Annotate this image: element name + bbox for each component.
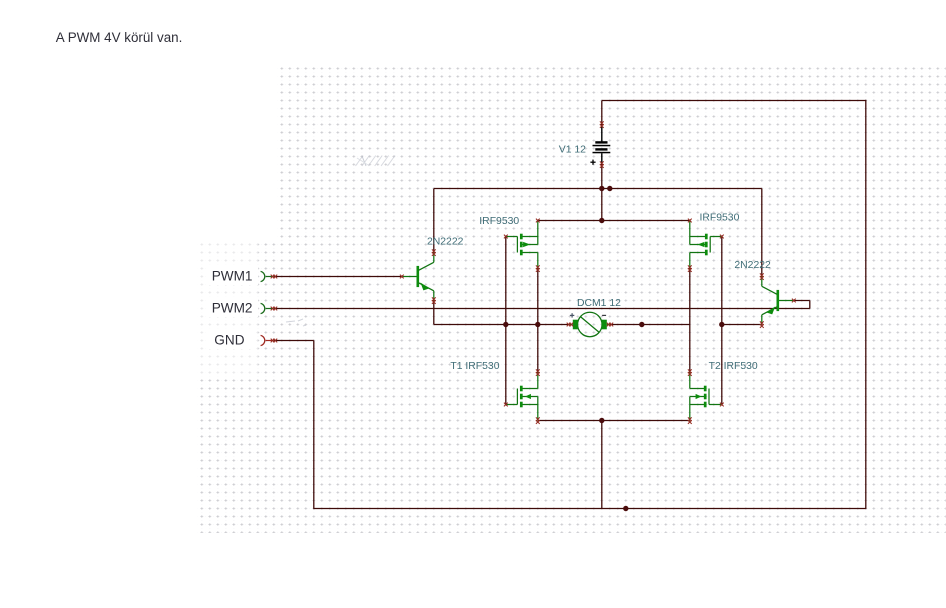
- svg-text:A PWM 4V körül van.: A PWM 4V körül van.: [56, 30, 183, 45]
- wire right emitter link: [722, 324, 762, 326]
- junction source rail at battery: [599, 218, 604, 223]
- connector PWM1: [261, 271, 265, 281]
- wire V+ collector rail: [434, 188, 762, 190]
- ghost small mark: [286, 319, 306, 326]
- svg-text:2N2222: 2N2222: [734, 260, 771, 271]
- junction motor row segment: [639, 322, 644, 327]
- battery V1 12: [590, 121, 610, 167]
- wire left emitter drop: [433, 301, 435, 325]
- svg-text:IRF9530: IRF9530: [479, 216, 519, 227]
- svg-text:DCM1 12: DCM1 12: [577, 298, 621, 309]
- svg-text:2N2222: 2N2222: [427, 236, 464, 247]
- wire right collector drop: [761, 189, 763, 277]
- svg-text:GND: GND: [214, 332, 244, 347]
- motor DCM1 12: [567, 312, 614, 336]
- svg-text:PWM1: PWM1: [212, 268, 253, 283]
- svg-text:T2 IRF530: T2 IRF530: [709, 361, 758, 372]
- wire GND horizontal: [274, 340, 314, 342]
- wire right edge vertical: [865, 100, 867, 509]
- wire motor row left: [434, 324, 570, 326]
- wire right half-bridge midpoint: [689, 269, 691, 373]
- wire PWM2 jog to base: [794, 300, 810, 302]
- wire left half-bridge midpoint: [537, 269, 539, 373]
- svg-text:PWM2: PWM2: [212, 300, 253, 315]
- MOSFET IRF9530 left: [504, 219, 540, 272]
- wire battery bottom to V+ rail: [601, 165, 603, 189]
- junction V+ rail stub: [607, 186, 612, 191]
- junction N source rail / ground drop: [599, 418, 604, 423]
- wire PWM1 net: [274, 276, 402, 278]
- ghost strikethrough text: [356, 156, 396, 167]
- wire P-MOSFET source rail: [538, 220, 690, 222]
- junction V+ rail at battery: [599, 186, 604, 191]
- wire motor row right: [610, 324, 690, 326]
- connector GND: [261, 335, 265, 345]
- svg-text:V1 12: V1 12: [559, 145, 586, 156]
- transistor 2N2222 left: [400, 249, 436, 304]
- wire left collector drop: [433, 189, 435, 253]
- svg-text:T1 IRF530: T1 IRF530: [450, 361, 499, 372]
- MOSFET T2 IRF530: [688, 369, 724, 424]
- wire source rail to ground: [601, 421, 603, 509]
- wire PWM2 jog up: [809, 301, 811, 309]
- junction right gates / emitter: [719, 322, 724, 327]
- wire battery top lead: [601, 101, 603, 125]
- wire battery to source rail: [601, 189, 603, 221]
- junction bottom ground run: [623, 506, 628, 511]
- wire bottom ground run: [314, 508, 867, 510]
- MOSFET IRF9530 right: [688, 219, 724, 272]
- wire GND vertical drop: [313, 341, 315, 510]
- junction motor row / left midpoint: [535, 322, 540, 327]
- connector PWM2: [261, 303, 265, 313]
- wire N-MOSFET source rail: [538, 420, 690, 422]
- wire left gates vertical: [505, 237, 507, 405]
- MOSFET T1 IRF530: [504, 369, 540, 424]
- transistor 2N2222 right: [760, 273, 796, 328]
- wire top rail from battery minus to right edge: [602, 100, 867, 102]
- wire PWM2 net: [274, 308, 810, 310]
- svg-text:IRF9530: IRF9530: [700, 212, 740, 223]
- junction motor row / left gates: [503, 322, 508, 327]
- wire right gates vertical: [721, 237, 723, 405]
